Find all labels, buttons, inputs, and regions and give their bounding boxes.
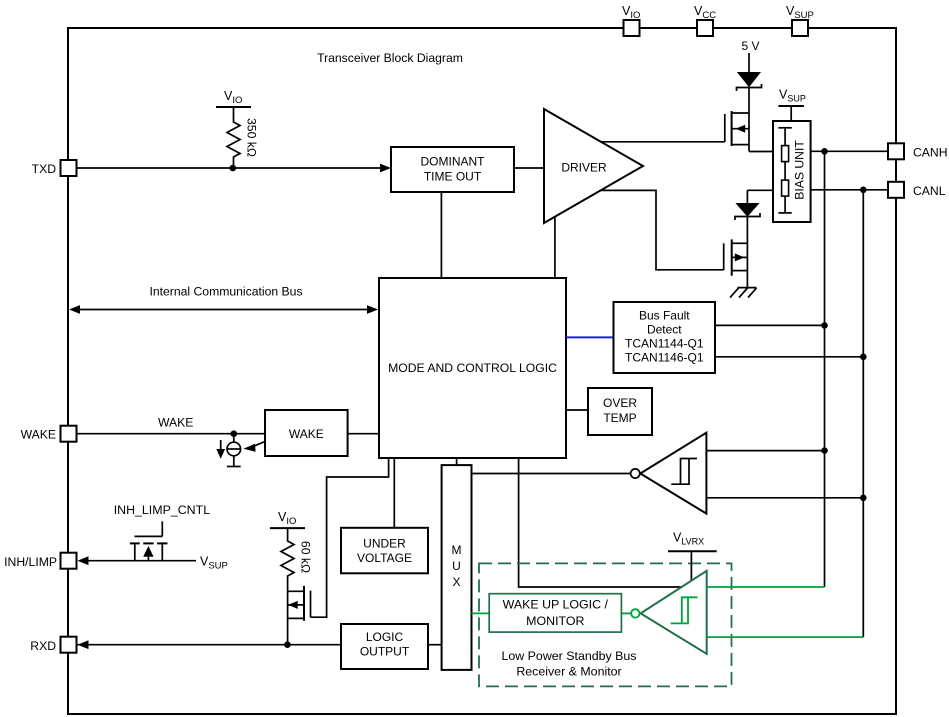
node CANH junction <box>821 148 828 155</box>
block DOMINANT TIME OUT <box>391 147 514 192</box>
wire dominant time out to driver <box>514 167 544 169</box>
svg-text:Detect: Detect <box>647 323 682 337</box>
pin CANH (right) <box>888 143 948 159</box>
title Transceiver Block Diagram <box>317 51 463 65</box>
wire TXD to dominant time out <box>77 164 391 173</box>
svg-text:TCAN1144-Q1: TCAN1144-Q1 <box>625 337 704 351</box>
svg-text:CANH: CANH <box>913 146 948 160</box>
diode D2 (bus zener) <box>735 190 773 220</box>
supply rail VIO (60k pullup) <box>270 510 305 528</box>
block OVER TEMP <box>588 388 652 435</box>
transistor Q3 (rxd pullup) <box>288 586 311 645</box>
op-amp main receiver <box>631 433 707 514</box>
pin WAKE (left) <box>21 426 77 442</box>
diode D1 (5V zener) <box>737 73 762 92</box>
wire driver upper output to high-side gate <box>601 141 725 143</box>
wire 5V supply <box>741 39 759 73</box>
node receiver CANL junction <box>860 495 867 502</box>
wire logic output to mux <box>428 644 442 646</box>
svg-text:Internal Communication Bus: Internal Communication Bus <box>149 285 302 299</box>
wire driver to mode logic <box>554 217 556 278</box>
wire mux to receiver bubble <box>472 473 631 475</box>
block MUX <box>442 465 472 670</box>
node WAKE junction <box>231 430 238 437</box>
op-amp standby receiver <box>631 571 707 654</box>
node receiver CANH junction <box>821 447 828 454</box>
svg-text:Transceiver Block Diagram: Transceiver Block Diagram <box>317 51 463 65</box>
svg-text:TEMP: TEMP <box>603 411 636 425</box>
wire internal communication bus <box>69 285 378 314</box>
wire receiver input CANH <box>706 450 824 452</box>
pin INH/LIMP (left) <box>4 553 76 569</box>
wire standby receiver input CANH (green) <box>707 586 825 588</box>
svg-text:5 V: 5 V <box>741 39 759 53</box>
arrow current direction <box>216 440 225 459</box>
svg-text:BIAS UNIT: BIAS UNIT <box>793 140 807 200</box>
block LOGIC OUTPUT <box>341 624 428 669</box>
wire wake box to mode logic <box>348 433 379 435</box>
svg-text:TIME OUT: TIME OUT <box>424 170 482 184</box>
svg-text:TCAN1146-Q1: TCAN1146-Q1 <box>625 351 704 365</box>
transistor Q1 (high-side MOSFET) <box>725 88 773 152</box>
block Bus Fault Detect <box>614 302 716 373</box>
node CANL junction <box>860 187 867 194</box>
svg-text:DRIVER: DRIVER <box>561 161 607 175</box>
wire receiver input CANL <box>706 497 863 499</box>
svg-text:MONITOR: MONITOR <box>526 614 584 628</box>
pin CANL (right) <box>888 182 946 198</box>
pin VCC (top) <box>694 4 716 36</box>
wire mode logic to mux <box>456 458 458 465</box>
wire dominant time out to mode logic <box>440 192 442 278</box>
wire mode logic to under voltage <box>393 458 395 528</box>
op-amp DRIVER <box>544 109 643 223</box>
arrow wake box control <box>243 442 265 452</box>
svg-text:WAKE UP LOGIC /: WAKE UP LOGIC / <box>503 598 609 612</box>
svg-text:CANL: CANL <box>913 184 946 198</box>
svg-text:TXD: TXD <box>32 162 57 176</box>
svg-text:INH_LIMP_CNTL: INH_LIMP_CNTL <box>114 503 211 517</box>
svg-text:WAKE: WAKE <box>158 416 193 430</box>
wire wake up logic to standby receiver bubble (green) <box>621 612 630 614</box>
wire mode logic to over temp <box>566 409 588 411</box>
label INH_LIMP_CNTL <box>114 503 211 517</box>
svg-text:MODE AND CONTROL LOGIC: MODE AND CONTROL LOGIC <box>388 361 557 375</box>
wire standby receiver input CANL (green) <box>707 636 864 638</box>
supply rail VIO (350k pullup) <box>216 89 251 107</box>
svg-text:RXD: RXD <box>30 639 56 653</box>
svg-text:WAKE: WAKE <box>289 427 324 441</box>
wire driver lower output to low-side gate <box>601 190 724 269</box>
low power standby dashed box <box>479 563 732 686</box>
wire mode logic to standby receiver <box>519 458 682 587</box>
block UNDER VOLTAGE <box>341 528 428 574</box>
pin VSUP (top) <box>786 4 814 36</box>
label VSUP (INH limp source) <box>200 555 228 572</box>
block MODE AND CONTROL LOGIC <box>379 278 566 458</box>
pin VIO (top) <box>622 4 640 36</box>
label Low Power Standby Bus Receiver & Monitor <box>502 649 637 679</box>
svg-text:350 kΩ: 350 kΩ <box>245 118 259 157</box>
svg-text:VOLTAGE: VOLTAGE <box>357 551 412 565</box>
wire CANH <box>811 150 888 152</box>
resistor 350 kOhm <box>227 107 259 168</box>
wire CANL <box>811 189 888 191</box>
current source I1 <box>227 434 241 467</box>
svg-text:60 kΩ: 60 kΩ <box>299 541 313 573</box>
wire mode logic to rxd pullup gate <box>311 458 389 617</box>
wire mux to wake up logic (green) <box>472 612 490 614</box>
ground <box>730 288 757 298</box>
wire bus fault detect to CANL bus <box>715 356 863 358</box>
transistor Q2 (low-side MOSFET) <box>724 217 748 288</box>
svg-text:X: X <box>452 575 460 589</box>
svg-text:U: U <box>452 559 461 573</box>
wire WAKE net <box>77 416 265 434</box>
supply rail VLVRX <box>668 531 717 583</box>
wire CANL sense bus <box>862 190 864 637</box>
svg-text:OVER: OVER <box>603 396 637 410</box>
node TXD/350k junction <box>230 165 237 172</box>
block WAKE UP LOGIC / MONITOR <box>489 594 621 632</box>
svg-text:Bus Fault: Bus Fault <box>639 309 690 323</box>
resistor 60 kOhm <box>281 528 313 591</box>
svg-text:WAKE: WAKE <box>21 428 56 442</box>
wire bus fault detect to CANH bus <box>715 324 825 326</box>
node bus fault CANH junction <box>821 322 828 329</box>
wire mode logic to bus fault detect (blue) <box>566 336 614 338</box>
wire RXD <box>77 640 341 649</box>
transistor Q4 (INH limp) <box>78 521 197 565</box>
svg-text:UNDER: UNDER <box>363 537 406 551</box>
svg-text:LOGIC: LOGIC <box>366 630 404 644</box>
supply rail VSUP (bias unit) <box>778 88 805 122</box>
node RXD junction <box>284 641 291 648</box>
svg-text:Receiver & Monitor: Receiver & Monitor <box>516 665 621 679</box>
svg-text:OUTPUT: OUTPUT <box>360 645 410 659</box>
pin TXD (left) <box>32 160 77 176</box>
svg-text:INH/LIMP: INH/LIMP <box>4 555 57 569</box>
block BIAS UNIT <box>773 121 811 222</box>
svg-text:Low Power Standby Bus: Low Power Standby Bus <box>502 649 637 663</box>
block WAKE <box>265 410 348 456</box>
node bus fault CANL junction <box>860 354 867 361</box>
svg-text:DOMINANT: DOMINANT <box>421 155 486 169</box>
pin RXD (left) <box>30 637 76 653</box>
svg-text:M: M <box>452 543 462 557</box>
wire CANH sense bus <box>824 151 826 587</box>
